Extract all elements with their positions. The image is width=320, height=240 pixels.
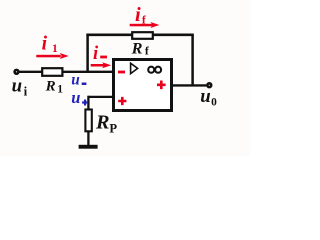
ground bbox=[79, 145, 98, 149]
current arrow i- bbox=[91, 62, 112, 68]
wire op-amp output bbox=[172, 84, 207, 86]
svg-text:P: P bbox=[109, 122, 117, 136]
svg-text:i: i bbox=[93, 44, 99, 64]
output terminal uo bbox=[207, 83, 211, 87]
op-amp noninverting input marker plus bbox=[118, 97, 126, 105]
svg-text:u: u bbox=[71, 72, 80, 89]
op-amp box bbox=[114, 60, 172, 111]
wire noninverting input vertical down to RP bbox=[87, 96, 89, 110]
resistor RP bbox=[85, 110, 91, 132]
wire feedback right vertical bbox=[191, 35, 194, 86]
wire RP to ground bbox=[87, 131, 89, 145]
wire feedback top horizontal bbox=[86, 33, 193, 36]
op-amp infinity gain symbol bbox=[148, 67, 161, 73]
wire feedback left vertical bbox=[86, 34, 89, 73]
wire R1 to op-amp inverting input bbox=[64, 71, 113, 73]
op-amp inverting input marker minus bbox=[118, 71, 125, 74]
current arrow if bbox=[130, 22, 160, 28]
current arrow i1 bbox=[36, 53, 68, 59]
svg-text:R: R bbox=[95, 112, 110, 134]
svg-text:u: u bbox=[71, 88, 80, 107]
wire noninverting input horizontal bbox=[88, 96, 112, 98]
resistor R1 bbox=[42, 68, 62, 76]
op-amp output polarity plus bbox=[157, 81, 166, 90]
op-amp gain triangle bbox=[131, 63, 138, 73]
input terminal ui bbox=[15, 70, 19, 74]
resistor Rf bbox=[132, 32, 153, 39]
wire input terminal to R1 bbox=[20, 71, 43, 73]
